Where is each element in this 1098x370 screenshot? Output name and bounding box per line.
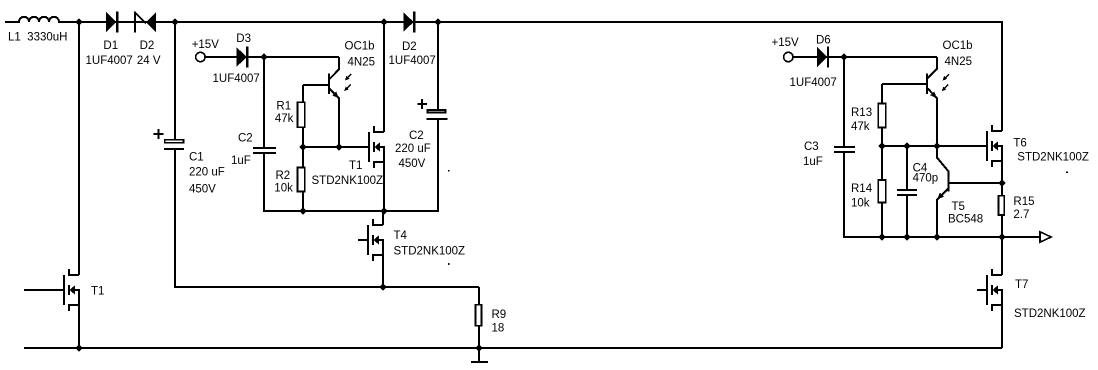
svg-text:47k: 47k <box>851 121 870 133</box>
svg-text:C2: C2 <box>238 133 253 145</box>
svg-text:D1: D1 <box>103 40 118 52</box>
svg-text:D2: D2 <box>140 40 155 52</box>
svg-text:1uF: 1uF <box>231 155 251 167</box>
svg-text:STD2NK100Z: STD2NK100Z <box>1014 308 1086 320</box>
svg-text:220 uF: 220 uF <box>395 143 431 155</box>
svg-text:T1: T1 <box>349 160 362 172</box>
svg-text:47k: 47k <box>275 113 294 125</box>
svg-text:450V: 450V <box>189 184 216 196</box>
svg-text:C2: C2 <box>409 130 424 142</box>
svg-text:+15V: +15V <box>772 37 800 49</box>
svg-text:D3: D3 <box>236 33 251 45</box>
svg-text:T1: T1 <box>91 286 104 298</box>
svg-text:4N25: 4N25 <box>348 57 376 69</box>
svg-text:R15: R15 <box>1013 196 1034 208</box>
svg-text:1UF4007: 1UF4007 <box>389 55 436 67</box>
svg-text:1uF: 1uF <box>803 156 823 168</box>
svg-text:T6: T6 <box>1013 138 1026 150</box>
svg-text:OC1b: OC1b <box>943 40 973 52</box>
svg-text:R13: R13 <box>851 107 872 119</box>
svg-text:24 V: 24 V <box>137 55 161 67</box>
svg-text:1UF4007: 1UF4007 <box>213 73 260 85</box>
svg-text:10k: 10k <box>851 198 870 210</box>
svg-text:D2: D2 <box>402 41 417 53</box>
svg-text:STD2NK100Z: STD2NK100Z <box>394 246 466 258</box>
svg-text:4N25: 4N25 <box>945 56 973 68</box>
svg-text:10k: 10k <box>274 183 293 195</box>
svg-text:L1 3330uH: L1 3330uH <box>8 32 67 44</box>
svg-text:1UF4007: 1UF4007 <box>86 55 133 67</box>
svg-text:OC1b: OC1b <box>345 41 375 53</box>
svg-text:R9: R9 <box>492 309 507 321</box>
svg-text:T7: T7 <box>1015 279 1028 291</box>
svg-text:D6: D6 <box>816 35 831 47</box>
svg-text:2.7: 2.7 <box>1013 209 1029 221</box>
svg-text:450V: 450V <box>399 158 426 170</box>
svg-text:R1: R1 <box>276 101 291 113</box>
svg-text:BC548: BC548 <box>948 214 983 226</box>
svg-text:+15V: +15V <box>192 39 220 51</box>
svg-text:T5: T5 <box>952 201 965 213</box>
svg-text:T4: T4 <box>394 230 408 242</box>
svg-text:C3: C3 <box>804 141 819 153</box>
svg-text:220 uF: 220 uF <box>189 167 225 179</box>
svg-text:R14: R14 <box>851 183 873 195</box>
svg-text:18: 18 <box>492 323 505 335</box>
svg-text:470p: 470p <box>913 173 939 185</box>
svg-text:STD2NK100Z: STD2NK100Z <box>312 175 384 187</box>
svg-text:R2: R2 <box>276 170 291 182</box>
svg-text:1UF4007: 1UF4007 <box>790 77 837 89</box>
svg-text:STD2NK100Z: STD2NK100Z <box>1017 152 1089 164</box>
svg-text:C1: C1 <box>189 152 204 164</box>
